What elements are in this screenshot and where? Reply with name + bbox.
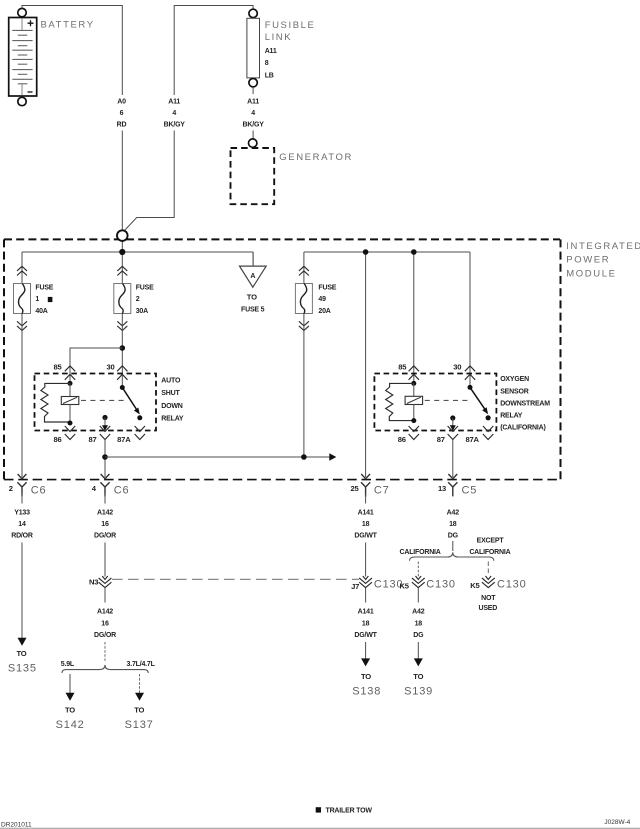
- splice K5 of C130 california: [412, 576, 425, 588]
- svg-text:DOWN: DOWN: [161, 403, 183, 410]
- svg-text:(CALIFORNIA): (CALIFORNIA): [500, 424, 545, 431]
- svg-text:86: 86: [53, 435, 61, 444]
- svg-text:87: 87: [88, 435, 96, 444]
- svg-text:FUSE: FUSE: [136, 285, 154, 292]
- svg-text:BATTERY: BATTERY: [41, 20, 95, 31]
- svg-text:FUSE 5: FUSE 5: [241, 307, 265, 314]
- svg-text:OXYGEN: OXYGEN: [500, 376, 529, 383]
- svg-text:30A: 30A: [136, 308, 148, 315]
- svg-text:N3: N3: [89, 578, 98, 587]
- svg-text:87A: 87A: [465, 435, 479, 444]
- svg-text:2: 2: [9, 484, 13, 493]
- trailer tow legend square: [316, 807, 321, 812]
- fusible link terminal bottom: [249, 79, 257, 87]
- svg-text:Y133: Y133: [14, 509, 30, 516]
- svg-text:18: 18: [415, 620, 423, 627]
- oxygen sensor downstream relay box: [374, 374, 496, 431]
- svg-text:DG/OR: DG/OR: [94, 632, 116, 639]
- svg-text:C6: C6: [31, 485, 47, 497]
- svg-text:TO: TO: [413, 672, 423, 681]
- wire Y133 to S135: [21, 494, 23, 504]
- svg-text:NOT: NOT: [481, 595, 496, 602]
- svg-text:DG: DG: [448, 533, 459, 540]
- svg-text:87: 87: [437, 435, 445, 444]
- engine split brace: [62, 665, 148, 673]
- arrow to S135: [18, 638, 27, 646]
- pin 87A terminal: [135, 426, 145, 440]
- svg-text:14: 14: [18, 521, 26, 528]
- pin 87 terminal: [100, 426, 110, 440]
- svg-text:DR201011: DR201011: [1, 821, 32, 828]
- generator G1 box: [231, 148, 275, 204]
- wire A42 stub to split: [452, 541, 454, 551]
- svg-text:C130: C130: [497, 579, 527, 591]
- O2 relay coil: [413, 383, 415, 396]
- wire california branch: [417, 562, 419, 577]
- node junction fuse 49 to switched bus: [301, 454, 307, 460]
- node battery feed bulkhead connector: [117, 230, 128, 241]
- svg-text:SHUT: SHUT: [161, 390, 180, 397]
- bottom scan line: [0, 827, 640, 829]
- svg-text:MODULE: MODULE: [566, 268, 616, 279]
- wire battery positive to A0 feed: [22, 6, 122, 96]
- node junction fuse 2 output: [120, 345, 126, 351]
- battery B1 negative terminal: [18, 97, 26, 105]
- node relay coil bottom junction: [68, 421, 73, 426]
- alignment dashed line N3 to J7: [112, 578, 359, 580]
- wire A141 to splice J7: [365, 494, 367, 504]
- svg-text:TO: TO: [65, 705, 75, 714]
- svg-text:A141: A141: [358, 509, 374, 516]
- node O2 pin 87: [450, 415, 455, 420]
- svg-text:CALIFORNIA: CALIFORNIA: [469, 549, 510, 556]
- svg-text:S137: S137: [125, 719, 154, 731]
- node junction right bus to O2 relay coil: [411, 249, 417, 255]
- svg-text:RD/OR: RD/OR: [11, 533, 33, 540]
- resistor in ASD relay: [41, 383, 70, 422]
- node junction A0 to bus: [119, 249, 125, 255]
- fuse F1 40A: [17, 266, 27, 275]
- O2 pin 87 terminal: [448, 426, 458, 440]
- ASD relay coil: [69, 383, 71, 396]
- wire A142 to splice N3: [104, 494, 106, 504]
- svg-text:S135: S135: [8, 662, 37, 674]
- wire A141 below J7: [365, 588, 367, 603]
- wire A42 to S139: [417, 642, 419, 659]
- svg-text:FUSE: FUSE: [35, 285, 53, 292]
- svg-text:S139: S139: [404, 686, 433, 698]
- svg-text:TRAILER TOW: TRAILER TOW: [326, 808, 373, 815]
- O2 pin 87 contact arrow: [452, 418, 454, 426]
- svg-text:POWER: POWER: [566, 255, 610, 266]
- svg-text:USED: USED: [478, 605, 497, 612]
- svg-text:CALIFORNIA: CALIFORNIA: [400, 549, 441, 556]
- svg-text:DG: DG: [413, 632, 424, 639]
- wire A0 6 RD vertical: [121, 131, 123, 231]
- integrated power module border top: [4, 238, 560, 240]
- svg-text:C6: C6: [114, 485, 130, 497]
- svg-text:87A: 87A: [117, 435, 131, 444]
- svg-text:DG/WT: DG/WT: [354, 632, 377, 639]
- node O2 switch common pin 30: [468, 385, 473, 390]
- svg-text:TO: TO: [16, 649, 26, 658]
- connector C7 pin 25: [361, 474, 370, 496]
- svg-text:INTEGRATED: INTEGRATED: [566, 241, 640, 252]
- pin 86 terminal: [65, 426, 75, 440]
- battery B1: [9, 18, 37, 97]
- svg-text:C5: C5: [462, 485, 478, 497]
- arrow to S138: [361, 658, 370, 666]
- node O2 coil top junction: [411, 381, 416, 386]
- svg-text:18: 18: [362, 620, 370, 627]
- svg-text:20A: 20A: [318, 308, 330, 315]
- svg-text:EXCEPT: EXCEPT: [477, 538, 505, 545]
- node ASD pin 87A: [137, 415, 142, 420]
- svg-text:TO: TO: [134, 705, 144, 714]
- svg-text:A11: A11: [265, 48, 277, 55]
- arrow to S142: [66, 693, 75, 701]
- wire 3.7L/4.7L branch: [139, 674, 141, 694]
- svg-text:25: 25: [350, 484, 359, 493]
- arrow to S137: [135, 693, 144, 701]
- svg-text:18: 18: [449, 521, 457, 528]
- wire right bus inside IPM: [304, 252, 470, 477]
- wire except california branch: [487, 562, 489, 574]
- svg-text:A142: A142: [97, 509, 113, 516]
- wire fusible link to generator: [252, 87, 254, 94]
- integrated power module border right: [560, 239, 562, 479]
- O2 pin 30 terminal: [465, 366, 475, 380]
- svg-text:DG/OR: DG/OR: [94, 533, 116, 540]
- svg-text:FUSE: FUSE: [318, 285, 336, 292]
- california split brace: [410, 552, 494, 560]
- svg-text:18: 18: [362, 521, 370, 528]
- wire fuse 1 to C6 pin 2: [21, 314, 23, 478]
- svg-text:16: 16: [101, 620, 109, 627]
- svg-text:A11: A11: [247, 99, 259, 106]
- svg-text:C7: C7: [374, 485, 390, 497]
- svg-text:4: 4: [251, 110, 255, 117]
- svg-text:30: 30: [106, 362, 114, 371]
- ASD switch blade to 87A: [122, 388, 137, 411]
- wire O2 pin 87 to C5 pin 13: [452, 440, 454, 478]
- wire A142 to engine split: [104, 642, 106, 662]
- svg-text:6: 6: [120, 110, 124, 117]
- connector C5 pin 13: [448, 474, 457, 496]
- svg-text:J7: J7: [351, 582, 359, 591]
- svg-text:DOWNSTREAM: DOWNSTREAM: [500, 400, 550, 407]
- svg-text:2: 2: [136, 296, 140, 303]
- svg-text:SENSOR: SENSOR: [500, 388, 529, 395]
- battery B1 positive terminal: [18, 8, 26, 16]
- svg-text:8: 8: [265, 60, 269, 67]
- svg-text:J028W-4: J028W-4: [604, 819, 630, 826]
- svg-text:30: 30: [453, 362, 461, 371]
- svg-text:K5: K5: [399, 582, 409, 591]
- svg-text:A11: A11: [168, 99, 180, 106]
- svg-text:BK/GY: BK/GY: [164, 121, 186, 128]
- splice K5 of C130 except california: [482, 576, 495, 588]
- fusible link terminal top: [249, 9, 257, 17]
- svg-text:A141: A141: [358, 609, 374, 616]
- resistor in O2 relay: [386, 383, 414, 420]
- svg-text:A0: A0: [117, 99, 126, 106]
- node O2 coil bottom junction: [411, 418, 416, 423]
- svg-text:40A: 40A: [35, 308, 47, 315]
- trailer tow marker square at fuse 1: [48, 297, 53, 302]
- node O2 pin 87A: [486, 415, 491, 420]
- svg-text:LB: LB: [265, 72, 274, 79]
- svg-text:TO: TO: [361, 672, 371, 681]
- wire A11 4 BK/GY vertical to IPM: [125, 131, 175, 231]
- svg-text:S138: S138: [352, 686, 381, 698]
- svg-text:1: 1: [35, 296, 39, 303]
- svg-text:85: 85: [53, 362, 62, 371]
- svg-text:A42: A42: [447, 509, 460, 516]
- svg-text:A142: A142: [97, 609, 113, 616]
- svg-text:16: 16: [101, 521, 109, 528]
- wire switched output bus: [105, 456, 330, 458]
- integrated power module border bottom: [4, 479, 561, 481]
- node ASD pin 87: [102, 415, 107, 420]
- ASD pin 87 contact arrow: [104, 418, 106, 426]
- svg-text:A42: A42: [412, 609, 425, 616]
- connector C6 pin 4: [100, 474, 109, 496]
- wire fuse 2 output to relay: [121, 314, 123, 388]
- svg-text:RELAY: RELAY: [161, 416, 184, 423]
- wire 5.9L branch: [69, 674, 71, 694]
- wire branch to relay pin 85: [70, 348, 122, 383]
- svg-text:RD: RD: [117, 121, 127, 128]
- svg-text:3.7L/4.7L: 3.7L/4.7L: [127, 661, 156, 668]
- wire A142 below N3: [104, 588, 106, 603]
- connector C6 pin 2: [17, 474, 26, 496]
- svg-text:RELAY: RELAY: [500, 412, 523, 419]
- node junction right bus to C7: [363, 249, 369, 255]
- O2 relay mechanical link: [425, 399, 471, 401]
- splice N3: [99, 576, 112, 588]
- wire left bus inside IPM: [22, 252, 253, 284]
- svg-text:FUSIBLE: FUSIBLE: [265, 20, 316, 31]
- svg-text:GENERATOR: GENERATOR: [279, 152, 353, 163]
- svg-text:13: 13: [438, 484, 446, 493]
- node ASD switch common pin 30: [120, 385, 125, 390]
- wire fusible link top feed: [174, 6, 253, 96]
- fuse F2 30A: [117, 266, 127, 275]
- ASD relay mechanical link: [81, 399, 127, 401]
- off-page arrow switched output: [329, 453, 336, 460]
- off-page connector triangle A: [240, 266, 267, 287]
- generator terminal: [249, 139, 257, 147]
- off-page triangle A to fuse 5 wire: [252, 252, 254, 266]
- splice J7 of C130: [359, 576, 372, 588]
- svg-text:49: 49: [318, 296, 326, 303]
- svg-text:C130: C130: [426, 579, 456, 591]
- svg-text:5.9L: 5.9L: [61, 661, 75, 668]
- svg-text:TO: TO: [247, 293, 257, 302]
- auto shut down relay box: [35, 374, 157, 431]
- O2 switch blade to 87A: [470, 387, 486, 410]
- svg-text:86: 86: [398, 435, 406, 444]
- arrow to S139: [414, 658, 423, 666]
- node relay coil top junction: [68, 381, 73, 386]
- wire ASD pin 87 to C6 pin 4: [104, 440, 106, 478]
- svg-text:DG/WT: DG/WT: [354, 533, 377, 540]
- O2 pin 87A terminal: [483, 426, 493, 440]
- wire A42 below K5: [417, 588, 419, 603]
- node junction pin 87 output: [102, 454, 108, 460]
- svg-text:BK/GY: BK/GY: [243, 121, 265, 128]
- O2 pin 86 terminal: [409, 426, 419, 440]
- svg-text:K5: K5: [470, 581, 480, 590]
- pin 30 terminal: [117, 366, 127, 380]
- integrated power module border left: [3, 239, 5, 479]
- svg-text:4: 4: [172, 110, 176, 117]
- svg-text:LINK: LINK: [265, 32, 293, 43]
- svg-text:A: A: [250, 273, 255, 280]
- svg-text:S142: S142: [56, 719, 85, 731]
- svg-text:AUTO: AUTO: [161, 377, 181, 384]
- O2 pin 85 terminal: [409, 366, 419, 380]
- fuse F49 20A: [299, 266, 309, 275]
- wire fuse 49 output down: [303, 314, 305, 458]
- wire A141 to S138: [365, 642, 367, 659]
- pin 85 terminal: [65, 366, 75, 380]
- connector circle battery feed into IPM: [121, 241, 123, 252]
- svg-text:85: 85: [398, 362, 407, 371]
- fusible link body: [247, 18, 260, 78]
